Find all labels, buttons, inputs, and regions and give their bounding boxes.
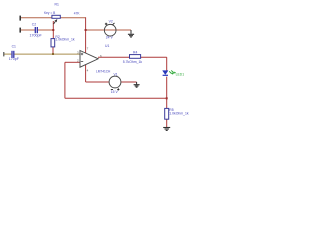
svg-text:47K: 47K — [74, 12, 81, 16]
svg-text:C2: C2 — [32, 23, 36, 27]
svg-text:1.0kOhm_1k: 1.0kOhm_1k — [169, 112, 189, 116]
svg-text:170pF: 170pF — [9, 57, 20, 61]
svg-text:C1: C1 — [12, 44, 16, 48]
svg-text:U1: U1 — [105, 44, 109, 48]
svg-text:5.7kOhm_1k: 5.7kOhm_1k — [123, 60, 143, 64]
svg-text:LED1: LED1 — [176, 73, 185, 77]
svg-text:24 V: 24 V — [106, 36, 114, 40]
svg-text:1700pF: 1700pF — [30, 34, 43, 38]
svg-text:V2: V2 — [109, 20, 113, 24]
svg-text:R4: R4 — [133, 51, 137, 55]
svg-text:R1: R1 — [55, 3, 59, 7]
svg-text:1.0kOhm_1k: 1.0kOhm_1k — [55, 37, 75, 41]
svg-text:15 V: 15 V — [111, 90, 119, 94]
svg-text:V1: V1 — [114, 72, 118, 76]
svg-text:Key = B: Key = B — [44, 11, 55, 15]
svg-text:LM741CH: LM741CH — [96, 70, 111, 74]
